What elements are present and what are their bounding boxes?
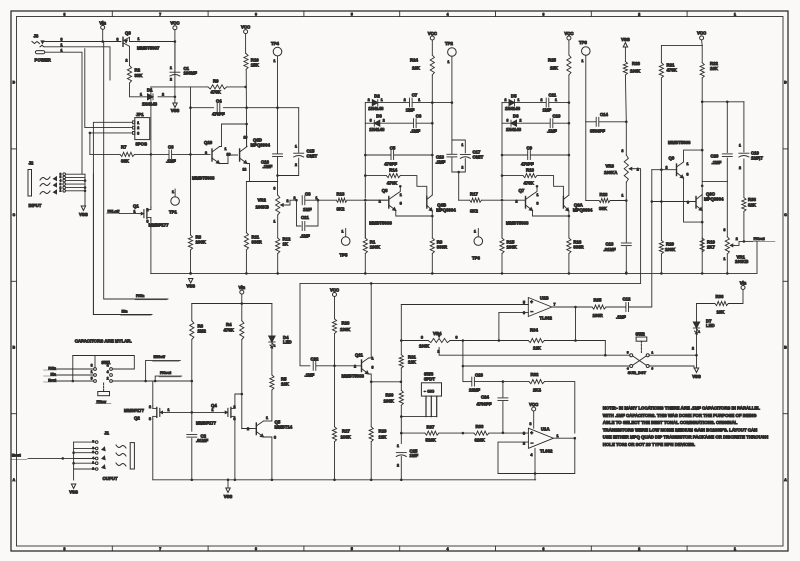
- capacitor C13 .01MF: [621, 242, 631, 244]
- diode D2 1N4148: [372, 100, 378, 106]
- svg-text:1MF: 1MF: [543, 108, 552, 113]
- wire R37 to R33: [439, 432, 474, 434]
- svg-text:100MF: 100MF: [184, 71, 198, 76]
- wire R13 to stage2 base: [347, 199, 387, 201]
- wire R6 column: [191, 304, 193, 321]
- svg-text:C23: C23: [475, 373, 483, 378]
- svg-text:OMIT: OMIT: [473, 154, 484, 159]
- wire FXout stub: [155, 376, 182, 381]
- capacitor C7 1MF: [409, 98, 411, 107]
- svg-text:2: 2: [520, 119, 522, 123]
- svg-text:2: 2: [736, 237, 738, 241]
- svg-text:2: 2: [149, 405, 151, 409]
- svg-text:3: 3: [421, 336, 423, 340]
- jack J2 terminals: [63, 173, 66, 176]
- svg-text:C24: C24: [481, 395, 489, 400]
- svg-text:Q8: Q8: [382, 188, 388, 193]
- node base2/R20 col: [660, 200, 663, 203]
- node rail R29: [370, 479, 373, 482]
- resistor R25 15K: [567, 55, 571, 75]
- svg-text:VSS: VSS: [621, 37, 630, 42]
- wire R23 right: [610, 200, 626, 202]
- resistor R36 10K: [715, 301, 728, 305]
- switch SW3 3PDT: [421, 383, 441, 396]
- svg-text:2: 2: [505, 98, 507, 102]
- wire pin6 link: [498, 313, 500, 341]
- svg-text:3: 3: [523, 432, 525, 436]
- node c18/c17 bottom: [457, 171, 460, 174]
- wire VR2 wiper to C8: [285, 200, 296, 205]
- wire C5 row: [365, 154, 391, 156]
- wire Q10 collector: [220, 124, 247, 147]
- wire output feedback down: [575, 307, 577, 341]
- node x151/C3 line: [150, 153, 153, 156]
- svg-text:SUB_DST: SUB_DST: [628, 370, 647, 375]
- wire C14 col down to R23: [585, 122, 587, 201]
- node q6c collector: [701, 185, 704, 188]
- capacitor C11 1MF: [545, 98, 547, 107]
- svg-text:1: 1: [266, 416, 268, 420]
- svg-text:J3: J3: [34, 34, 39, 39]
- op-amp U1A TL062: [528, 428, 553, 448]
- terminal VCC stage3: [567, 36, 571, 40]
- svg-text:MMBF177: MMBF177: [196, 421, 217, 426]
- potentiometer VR3 100KA: [624, 155, 628, 182]
- node rail Q5: [271, 479, 274, 482]
- transistor Q10 MMBT5088: [211, 149, 213, 161]
- wire FXout to rail: [744, 240, 753, 242]
- svg-text:R37: R37: [427, 425, 435, 430]
- node output/tone fb: [574, 437, 577, 440]
- svg-text:1: 1: [212, 408, 214, 412]
- svg-text:3: 3: [542, 12, 544, 16]
- capacitor C2 .01MF: [187, 434, 197, 436]
- resistor R24 10K: [430, 55, 434, 75]
- svg-text:R4: R4: [226, 322, 232, 327]
- svg-text:12K: 12K: [379, 435, 388, 440]
- wire stage left vertical (D2 block): [364, 103, 366, 198]
- wire emitter row to VR2: [250, 181, 278, 183]
- test point TP3: [582, 47, 591, 56]
- node J1 bus b: [72, 462, 75, 465]
- wire U1A feedback loop: [498, 438, 575, 473]
- ground VSS on rail: [189, 272, 192, 275]
- svg-text:TL062: TL062: [540, 449, 553, 454]
- svg-text:R33: R33: [476, 424, 484, 429]
- svg-text:VCC: VCC: [241, 25, 250, 30]
- wire Q5 emitter to rail: [264, 437, 272, 480]
- svg-text:1: 1: [739, 144, 741, 148]
- svg-text:1: 1: [537, 193, 539, 197]
- svg-text:MMBF177: MMBF177: [124, 408, 145, 413]
- svg-text:MMBT5088: MMBT5088: [342, 374, 365, 379]
- svg-text:C11: C11: [549, 93, 557, 98]
- SW2 cross wires: [633, 356, 647, 365]
- svg-text:1: 1: [381, 98, 383, 102]
- wire C3 to Q10 base: [172, 153, 210, 155]
- wire C17 parallel loop: [452, 140, 465, 153]
- node C16 bottom: [276, 174, 279, 177]
- svg-text:1: 1: [734, 547, 736, 551]
- svg-text:100K: 100K: [507, 245, 518, 250]
- node FXout tap: [154, 380, 157, 383]
- svg-text:3: 3: [456, 336, 458, 340]
- svg-text:C9: C9: [527, 146, 533, 151]
- resistor R16 330R: [567, 238, 571, 254]
- capacitor C21 .1MF: [301, 222, 303, 231]
- wire r1 to rail: [364, 254, 366, 274]
- svg-text:82K: 82K: [748, 203, 757, 208]
- node c5 row left: [501, 154, 504, 157]
- svg-text:4: 4: [107, 364, 109, 368]
- svg-text:C13: C13: [606, 242, 614, 247]
- svg-text:1: 1: [372, 357, 374, 361]
- svg-text:MMBT5088: MMBT5088: [192, 176, 215, 181]
- SW1 contacts: [94, 368, 97, 371]
- resistor R3 330R: [430, 238, 434, 254]
- svg-text:JP1: JP1: [136, 112, 144, 117]
- diode D7 LED: [693, 322, 699, 328]
- svg-text:INPUT: INPUT: [29, 203, 42, 208]
- node C20 top: [726, 101, 729, 104]
- wire J2 ground bus: [84, 174, 86, 206]
- capacitor C10 .1MF: [549, 119, 551, 128]
- svg-text:.1MF: .1MF: [410, 129, 420, 134]
- wire R7 line: [90, 153, 120, 155]
- wire Q4 bottom to rail: [234, 419, 236, 480]
- node R4 bottom: [241, 393, 244, 396]
- transistor Q6C MPQ3904: [695, 197, 697, 209]
- svg-text:8K2: 8K2: [337, 207, 345, 212]
- wire DISToff stub: [146, 360, 181, 381]
- wire VCC to R10: [245, 34, 247, 54]
- wire d1 to c7: [515, 102, 547, 104]
- terminal VCC stage2: [430, 36, 434, 40]
- svg-text:2: 2: [541, 98, 543, 102]
- svg-text:6: 6: [255, 12, 257, 16]
- svg-text:3PDT: 3PDT: [424, 376, 435, 381]
- node R6/output row: [191, 380, 194, 383]
- svg-text:VCC: VCC: [529, 402, 538, 407]
- ground VSS below J2: [81, 206, 85, 211]
- wire gate line Q2-Q4: [165, 411, 223, 413]
- wire main oscillator column: [701, 102, 703, 273]
- svg-text:← (+)(-): ← (+)(-): [424, 389, 435, 393]
- svg-text:MMBF177: MMBF177: [149, 223, 170, 228]
- wire C23 branch down: [462, 341, 464, 382]
- svg-text:3: 3: [537, 202, 539, 206]
- potentiometer VR2 100KB: [276, 195, 280, 215]
- svg-text:C4: C4: [216, 99, 222, 104]
- svg-text:100K: 100K: [384, 399, 395, 404]
- wire R2 to D1: [130, 83, 147, 97]
- wire J1 bus: [73, 442, 75, 480]
- svg-text:2: 2: [126, 59, 128, 63]
- node r1 rail: [501, 272, 504, 275]
- transistor Q1 MMBF177: [146, 209, 148, 219]
- svg-text:1: 1: [91, 370, 93, 374]
- wire TP6 stub: [477, 229, 479, 237]
- wire sub row2 (from C23 line): [463, 365, 630, 367]
- resistor R26 100K: [623, 62, 627, 76]
- svg-text:+: +: [530, 300, 533, 305]
- wire r1 top: [364, 203, 366, 239]
- wire Q3 collector to R2: [129, 46, 131, 65]
- resistor R5 10K: [270, 375, 274, 390]
- node rail C2: [191, 479, 194, 482]
- svg-text:R24: R24: [410, 58, 418, 63]
- svg-text:1: 1: [582, 59, 584, 63]
- node FXout: [743, 240, 746, 243]
- svg-text:2K7: 2K7: [707, 245, 715, 250]
- wire R31 column from U1B: [400, 305, 402, 355]
- svg-text:C3: C3: [168, 145, 174, 150]
- wire box line (signal from VR3 wiper): [300, 282, 641, 284]
- wire diode row 2: [502, 122, 511, 124]
- node c5 row right: [431, 154, 434, 157]
- wire R29 to rail: [370, 442, 372, 480]
- svg-text:12K: 12K: [533, 346, 542, 351]
- svg-text:R25: R25: [548, 58, 556, 63]
- svg-text:1: 1: [225, 147, 227, 151]
- node Eout bus: [62, 457, 65, 460]
- svg-text:D1: D1: [147, 87, 153, 92]
- svg-text:1: 1: [400, 193, 402, 197]
- svg-text:J1: J1: [104, 431, 109, 436]
- svg-text:6: 6: [255, 547, 257, 551]
- svg-text:2: 2: [354, 365, 356, 369]
- svg-text:1: 1: [462, 143, 464, 147]
- wire R14 row: [365, 175, 386, 177]
- resistor R37 510K: [425, 431, 439, 435]
- resistor R15 100K (base bias): [500, 238, 504, 254]
- svg-text:3: 3: [400, 202, 402, 206]
- svg-text:R13: R13: [337, 192, 345, 197]
- wire r1 top: [501, 203, 503, 239]
- svg-text:C22: C22: [311, 357, 319, 362]
- svg-text:VSS: VSS: [171, 108, 180, 113]
- node TP2/C18: [451, 101, 454, 104]
- resistor R17 8K2: [470, 198, 482, 202]
- wire JP1 pin1: [93, 122, 132, 174]
- svg-text:SW2: SW2: [636, 332, 646, 337]
- wire R33 to U1A pin3: [489, 432, 529, 434]
- terminal VSS (up arrow, R26): [623, 43, 627, 48]
- wire Vin stub: [102, 29, 104, 41]
- svg-text:.1MF: .1MF: [300, 234, 310, 239]
- test point TP5: [341, 237, 350, 246]
- svg-text:FXout: FXout: [754, 236, 766, 241]
- svg-text:3: 3: [274, 436, 276, 440]
- wire Vin row: [192, 303, 272, 305]
- resistor R10 15K: [244, 54, 248, 70]
- svg-text:3: 3: [542, 547, 544, 551]
- resistor R7 39K: [120, 152, 135, 156]
- svg-text:R17: R17: [470, 192, 478, 197]
- svg-text:TP6: TP6: [472, 256, 480, 261]
- wire R20 column: [660, 170, 662, 241]
- wires J1 terminals to bus: [74, 441, 96, 443]
- svg-text:VCC: VCC: [697, 31, 706, 36]
- node main col top row: [568, 101, 571, 104]
- svg-text:.01MF: .01MF: [196, 438, 209, 443]
- svg-text:100K: 100K: [665, 247, 676, 252]
- node C8/C21 right: [317, 199, 320, 202]
- node C8/C21 left: [295, 199, 298, 202]
- svg-text:MMBT5087: MMBT5087: [137, 46, 160, 51]
- wire Q2 bottom to rail: [152, 419, 154, 480]
- terminal Vin (LED supply): [741, 286, 745, 290]
- wire into pin 5: [401, 304, 528, 306]
- svg-text:6: 6: [523, 311, 525, 315]
- wire SW1 loop: [95, 356, 134, 370]
- svg-text:1N4148: 1N4148: [142, 102, 158, 107]
- svg-text:100K: 100K: [630, 69, 641, 74]
- transistor Q8 MMBT5088: [388, 197, 390, 209]
- wire R9 feedback line: [151, 86, 208, 88]
- svg-text:TL062: TL062: [540, 316, 553, 321]
- svg-text:8: 8: [63, 12, 65, 16]
- svg-text:1: 1: [418, 98, 420, 102]
- svg-text:1: 1: [342, 230, 344, 234]
- svg-text:1: 1: [557, 434, 559, 438]
- node SW3 row: [400, 415, 403, 418]
- svg-text:EINoff: EINoff: [154, 354, 166, 359]
- node base/R21: [660, 168, 663, 171]
- svg-text:1: 1: [622, 194, 624, 198]
- svg-text:.1MF: .1MF: [166, 159, 176, 164]
- wire TP1 stub: [174, 189, 176, 197]
- wire VCC rail: [174, 30, 176, 103]
- resistor R12 1K: [276, 238, 280, 254]
- svg-text:13: 13: [227, 152, 231, 156]
- node R26/C14: [625, 121, 628, 124]
- svg-text:1: 1: [448, 60, 450, 64]
- wire JP1 pin3: [90, 133, 133, 155]
- wire VCC to R28: [334, 297, 336, 319]
- wire C16 column: [277, 108, 279, 154]
- node rows join: [568, 122, 571, 125]
- svg-text:FXsw: FXsw: [97, 400, 107, 404]
- svg-text:MMBT5088: MMBT5088: [369, 221, 392, 226]
- wire R7 to C3: [135, 153, 169, 155]
- svg-text:1K: 1K: [283, 242, 289, 247]
- capacitor C25 1MF: [396, 452, 406, 454]
- terminal VCC stage1: [244, 30, 248, 34]
- svg-text:33K: 33K: [135, 73, 144, 78]
- svg-text:.1MF: .1MF: [436, 160, 446, 165]
- svg-text:470K: 470K: [667, 68, 678, 73]
- wire VR1 wiper to FXout: [735, 241, 744, 245]
- wire caps top row: [702, 101, 744, 103]
- wires into SW1: [57, 368, 94, 370]
- capacitor C22 .1MF: [312, 361, 314, 370]
- svg-text:3: 3: [724, 228, 726, 232]
- wire C22 to Q11 base: [316, 365, 361, 367]
- terminal Vin (bottom): [240, 290, 244, 294]
- resistor R23 39K: [599, 198, 610, 202]
- svg-text:2: 2: [637, 167, 639, 171]
- wire d2 to c6: [517, 122, 551, 124]
- svg-text:TP3: TP3: [579, 40, 587, 45]
- svg-text:FXout: FXout: [160, 370, 172, 375]
- wire d1 to c7: [378, 102, 410, 104]
- wire c7 to main column: [549, 102, 569, 104]
- wire power pin3 to Vin/Q3: [45, 41, 122, 43]
- svg-text:R18: R18: [526, 168, 534, 173]
- terminal VCC oscillator: [700, 36, 704, 40]
- wire Q4 top: [235, 394, 242, 406]
- diode D5 1N4148: [509, 100, 515, 106]
- svg-text:TP4: TP4: [271, 41, 279, 46]
- wire Q6C base row: [652, 201, 696, 203]
- svg-text:−: −: [531, 441, 534, 446]
- node JP1 wires: [89, 132, 92, 135]
- wires SW2 to VSS: [649, 354, 696, 356]
- node VR4 row: [400, 339, 403, 342]
- svg-text:1N4148: 1N4148: [369, 127, 385, 132]
- wire R26 down: [624, 75, 627, 122]
- wire R25 down: [568, 75, 570, 103]
- wire C19 column: [743, 102, 745, 152]
- resistor R31 12K: [399, 355, 403, 368]
- wire R34 node down to sub row: [604, 341, 606, 356]
- svg-text:2: 2: [147, 208, 149, 212]
- wire R23 left: [586, 200, 599, 202]
- capacitor C6 .1MF: [413, 119, 415, 128]
- resistor R8 100K: [188, 235, 192, 250]
- diode D1 1N4148: [148, 94, 154, 100]
- svg-text:1: 1: [134, 210, 136, 214]
- svg-text:470K: 470K: [387, 181, 398, 186]
- wires J2 terminals to bus: [66, 173, 86, 175]
- wire C23 to R32: [475, 381, 529, 383]
- wire Q9 collector: [684, 150, 703, 162]
- svg-text:130K: 130K: [340, 327, 351, 332]
- terminal VCC (Q11 bias): [333, 293, 337, 297]
- svg-text:330R: 330R: [252, 240, 263, 245]
- resistor R11 330R: [244, 233, 248, 250]
- wire R31 to emitter row: [400, 368, 402, 390]
- potentiometer VR4 100K: [428, 338, 450, 342]
- resistor R21 470K: [659, 63, 663, 78]
- svg-text:3: 3: [149, 417, 151, 421]
- svg-text:2: 2: [107, 377, 109, 381]
- SW2 contacts: [630, 354, 633, 357]
- capacitor C9 470PF: [527, 151, 529, 160]
- wire R14 row: [502, 175, 523, 177]
- node DISToff tap: [144, 380, 147, 383]
- wire R11 to rail: [245, 250, 247, 273]
- svg-text:1N4148: 1N4148: [505, 106, 521, 111]
- svg-text:5: 5: [351, 12, 353, 16]
- svg-text:2: 2: [205, 151, 207, 155]
- wire r14 right: [400, 176, 427, 197]
- node SW1 loop/Eout: [72, 380, 75, 383]
- wire VCC to R24: [431, 40, 433, 55]
- wire LED to R5: [271, 342, 273, 375]
- ground VSS below C1: [173, 103, 177, 108]
- svg-text:Q3: Q3: [125, 31, 131, 36]
- wire JP1 pin2: [85, 49, 133, 128]
- wire TP5 stub: [345, 229, 347, 237]
- svg-text:1: 1: [724, 257, 726, 261]
- node C4/x190: [189, 106, 192, 109]
- svg-text:R30: R30: [386, 393, 394, 398]
- wire SW3 legs row: [401, 416, 436, 418]
- capacitor C3 .1MF: [168, 150, 170, 159]
- node tone/row2: [462, 365, 465, 368]
